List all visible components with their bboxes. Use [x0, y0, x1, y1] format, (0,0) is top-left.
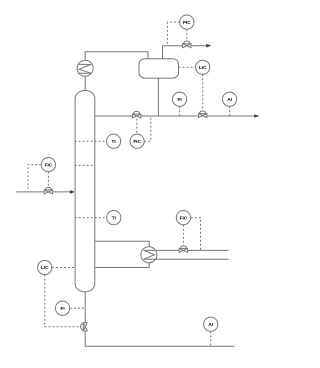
svg-text:PIC: PIC: [183, 20, 191, 25]
svg-text:TI: TI: [112, 215, 116, 220]
svg-text:FIC: FIC: [45, 162, 53, 167]
svg-text:FIC: FIC: [180, 215, 188, 220]
svg-text:AI: AI: [208, 322, 213, 327]
svg-text:FI: FI: [61, 306, 65, 311]
svg-text:FI: FI: [178, 97, 182, 102]
svg-text:LIC: LIC: [199, 65, 207, 70]
svg-text:TI: TI: [112, 139, 116, 144]
svg-text:LIC: LIC: [41, 265, 49, 270]
svg-text:AI: AI: [227, 97, 232, 102]
svg-text:FIC: FIC: [133, 139, 141, 144]
